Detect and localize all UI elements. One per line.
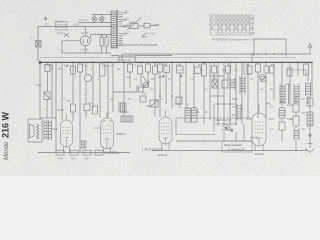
capacitor C22 [226,66,231,73]
value label 470 [142,92,147,96]
wire drop x274 [273,62,275,100]
value label 0,1 [168,77,172,81]
resistor R13 [293,116,299,126]
table right column text [250,17,255,35]
wire tie y96b [210,95,224,97]
interference capacitor C3 [144,23,150,28]
tiny labels top-left [30,10,155,63]
value label 220 [124,10,129,14]
value label 0,3 [250,77,254,81]
capacitor C7 [100,64,106,76]
value label 50µF [36,83,43,87]
value label 6,3V [58,108,64,112]
value label 300 [301,111,306,115]
value label 50 [117,67,120,71]
wire drop x155 [154,62,156,117]
value label 0,5A [129,20,135,24]
value label 1M [301,97,305,101]
resistor R18 [84,104,90,111]
fuse Si2 [130,24,138,29]
value label 100 [212,77,217,81]
capacitor C1 [100,37,103,46]
value label 30 [160,97,163,101]
table marks [211,16,250,33]
wire x244 drop2 [243,124,245,141]
capacitor C2 [105,37,108,46]
wire mid-left [111,54,172,61]
capacitor C23 [139,87,144,92]
value label 5000 [174,102,180,106]
value label 2x8µF [98,33,106,37]
wire drop x236b [224,132,236,141]
wire drop x180 [179,62,181,108]
value label ECL11 [255,152,264,156]
value label 4700 [73,23,80,27]
capacitor C5 [71,66,76,74]
choke L1 [121,116,133,122]
padder C13 [304,64,309,75]
wire drop x224 [223,62,225,126]
wire drop x194 [193,62,195,108]
rectifier tube U1 [80,36,90,46]
coil L9 [240,76,245,94]
paper background [0,0,320,176]
value label Wellenschalter [224,143,242,147]
wire drop x73 [72,62,74,122]
value label sicherung [55,23,68,27]
padder box C17 [140,96,146,102]
value label 0,3 [88,101,92,105]
wire drop x93 [92,62,94,108]
valve data table [210,15,253,35]
value label 300 [71,157,76,161]
value label Netzanschl. [55,28,70,32]
value label 0,1 [134,77,138,81]
value label 100 [232,105,237,109]
value label 0,1 [270,127,274,131]
value label 5000 [287,117,293,121]
value label 5000 [158,75,164,79]
tube labels [52,108,264,157]
resistor R9 [83,150,91,155]
switch S3 [143,76,148,84]
wire rect to caps [62,35,111,54]
value label 0,1 [84,64,88,68]
avc arrow 1 [162,74,183,77]
value label 125 [124,24,129,28]
frame loop [254,39,286,56]
capacitor C0 mains [36,41,42,48]
wire drop x113 [112,62,114,112]
potentiometer P2 [260,76,266,82]
tube V4 ECL11 [252,104,266,151]
value label ECH11 [158,153,168,157]
value label 0,1 [222,68,226,72]
wire drop x306 [305,62,307,64]
value label 2500 [140,83,146,87]
output tube V1 AL4 [61,114,73,153]
wire right column [282,94,296,150]
resistor R4 [138,66,143,74]
wire drop x100 [99,62,101,118]
value label (CL4) [251,136,258,140]
main HT bus [40,61,312,63]
value label 4µF [64,64,69,68]
value label 1M [163,63,167,67]
lamp cross La2 [100,17,103,20]
value label 5000 [246,117,252,121]
dial lamp La1 [92,17,97,22]
capacitor C15 [293,104,299,112]
resistor R6 [287,68,292,76]
value label in Stellung M [228,148,245,152]
resistor R5 [153,66,158,74]
wire fuse to switch [123,25,144,27]
value label Klemmbr. [121,58,132,62]
value label 0,1 [134,63,138,67]
transformer taps [123,13,127,34]
wire y118 long [176,118,252,135]
tube V2 EBC11 [93,112,114,153]
capacitor C6 [78,64,83,72]
value label 50 [50,67,53,71]
wire drop x248 [247,62,249,118]
wellenschalter label box [222,141,252,152]
osc transformer core [289,84,291,104]
resistor R12 [279,122,285,130]
value label PHILIPS/VALVO-Ersatzröhren +2' [212,38,254,42]
wire drop x230 [229,62,231,126]
wire y92 [113,85,137,92]
value label 0,1 [150,87,154,91]
wire tie y70 far right [286,70,306,75]
coupling coil L4 [237,104,241,120]
resistor R20 [45,65,50,72]
value label 0,1 [62,97,66,101]
capacitor C21 [212,66,217,73]
value label 3 [98,77,100,81]
wire under rectifier [62,52,111,54]
switch bank S4 [222,124,232,130]
wire hop marks [266,102,284,105]
potentiometer P1 [85,75,92,82]
resistor R19 [307,112,313,126]
capacitor C14 [80,141,86,148]
value label 0,5 [110,64,114,68]
wire drop x62 [61,62,63,120]
value label CH/EBC11 [104,151,120,155]
value label 0,5 [128,97,132,101]
output transformer Tr2 [44,120,47,140]
wire x214 [213,104,215,132]
wire drop x130 [129,62,131,88]
value label 0,1 [204,87,208,91]
wire drop x210 [209,62,211,120]
antenna arrow right [308,44,312,54]
misc labels mid [36,63,306,161]
value label 4µ [66,64,69,68]
capacitor C8 [128,64,133,72]
value label 0,5 [176,63,180,67]
capacitor C10 [158,64,163,72]
trimmer C18 [150,100,158,107]
oscillator coil L2 [280,84,285,104]
capacitor pair C19 [264,66,269,73]
value label 50 [110,97,113,101]
box on right column [307,98,313,106]
wire drop x186 [185,62,187,108]
value label 0,1 [190,77,194,81]
value label 0,2 [178,68,182,72]
capacitor C12 [256,64,261,72]
value label 200 [270,63,275,67]
wire AVC long [122,53,310,55]
bottom rail B [152,150,308,152]
arrow feed [155,44,158,46]
resistor R16 [195,67,202,74]
value label 1 [84,93,86,97]
value label 2 [76,75,78,79]
resistor R3 [93,106,98,114]
value label 0,2 [290,117,294,121]
table caption [212,38,254,42]
wire drop x252 [251,54,253,61]
value label 0,1 [240,107,244,111]
antenna terminal [44,17,47,20]
value label Geräte- [55,20,65,24]
wire tie y84 right [286,84,290,90]
resistor R17 [247,66,252,74]
value label 0,5 [234,68,238,72]
wire drop x218 [217,62,219,126]
electrolytic C4 [44,92,50,100]
value label (AZ 1) [81,48,89,52]
value label 2000 [268,117,274,121]
wire tie y76 [210,75,224,77]
junction dots on bus [39,61,313,64]
wire scale lamp feed [116,44,157,45]
value label 0,1 [30,36,34,40]
band switch wire y120 [214,119,230,121]
wire drop x160 [159,62,161,117]
bottom rail A [38,152,130,154]
switch S0 [64,33,69,37]
value label 50 [58,67,61,71]
wire drop x266 [265,62,267,118]
resistor R11 [279,108,285,118]
IF transformer T_if1 [185,108,191,122]
osc winding L5 [294,84,299,104]
capacitor C9 [146,64,151,72]
brand text Mende [1,111,11,160]
value label 50 [198,63,201,67]
coil L3 [294,128,299,140]
switch S2 [142,33,148,38]
resistor R2 [71,104,76,112]
terminal box TB1 [119,56,135,62]
value label 0,5M [287,103,294,107]
capacitor C24 [212,80,218,88]
wire speaker top [40,117,56,119]
wire drop x108 [107,62,109,118]
value label 700 [66,99,71,103]
wire drop x258 [257,62,259,118]
wire y141 [176,140,252,142]
value label 50pF [232,97,238,101]
wire drop x242 [241,62,243,124]
wire mains horizontal [38,26,112,28]
value label 0,1 [260,87,264,91]
capacitor C25 [222,80,228,88]
speaker LS [28,119,42,142]
value label 4x0,1A [79,18,88,22]
ground G1 [308,135,312,139]
wire drop x282 [281,62,283,104]
wire drop x80 [79,62,81,153]
value label 202 [44,23,49,27]
wire drop x172 [171,62,173,108]
band switch wire y132 [176,134,216,136]
value label 0,1µF [44,63,51,67]
wire drop x228b [227,62,229,80]
wire drop x52 [51,62,53,118]
value label 0,1µF [148,32,155,36]
lamp cross La1 [93,17,96,20]
wire drop x40 [39,62,41,118]
coil L8 [230,78,235,90]
value label 50 [232,113,235,117]
transformer Tr1 [111,10,123,49]
heater wire [40,56,296,58]
value label 1M [126,75,130,79]
wire drop x236 [235,62,237,124]
value label 110 [124,31,129,35]
coil L7 [306,82,311,96]
rectifier anodes [83,27,87,54]
wire drop x86 [85,62,87,118]
wire drop x141 [140,62,142,84]
wire drop x124 [123,62,125,116]
wire drop x204 [203,62,205,124]
capacitor C11 [202,64,207,76]
value label (ABC1) [116,132,126,136]
value label 220V [57,31,64,35]
value label L 26,3 (ACH1) [142,148,162,152]
tube V3 ECH11 [159,110,172,150]
wire lamp top [92,15,112,17]
fuse label box [56,21,68,27]
resistor R10 [95,150,103,155]
value label 0,1 [246,63,250,67]
value label 50 [302,127,305,131]
resistor R14 [164,66,170,73]
trimmer C16 [259,74,264,79]
wire tie y74 right [244,62,252,74]
dial lamp La2 [100,17,105,22]
value label 4 [44,107,46,111]
value label AL4 [52,127,58,131]
resistor R15 [177,66,184,73]
value label 6800 [103,64,109,68]
switch S1 [150,24,159,27]
value label 2M [151,77,155,81]
wire drop x214b [213,62,215,80]
wire drop x148 [147,62,149,88]
scan noise [0,0,1,1]
value label 0,1 [270,105,274,109]
resistor R7 [56,94,315,155]
wire mains drop [37,27,39,61]
potentiometer P3 [143,82,149,88]
switch arm S5 [127,18,141,31]
value label Drossel [120,110,130,114]
coil box L6 [119,103,126,112]
resistor R21 [176,97,182,104]
resistor R8 [70,150,78,155]
value label 50 [270,87,273,91]
value label 0,1 [90,67,94,71]
wire lamp bottom [78,21,112,22]
value label AZ 11 [81,31,89,35]
value label 150 [124,17,129,21]
wire drop x290 [289,62,291,84]
band switch wire y104 [214,103,236,105]
value label 100 [84,157,89,161]
value label 50 [200,68,203,72]
band switch wire y124 [214,123,236,125]
wire drop x56 [55,62,57,153]
wire drop x298 [297,62,299,76]
value label 4700 [57,157,63,161]
value label ZF [186,102,190,106]
wire drop x166 [165,62,167,104]
junction dots secondary [147,53,283,125]
value label 0,1 [50,64,54,68]
wire drop x312 [310,62,312,148]
